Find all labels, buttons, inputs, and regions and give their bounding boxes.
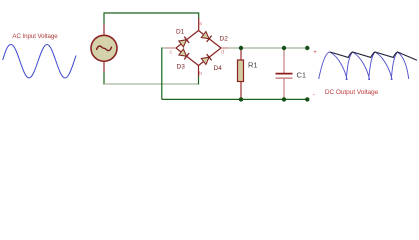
junction dot C1 bottom (282, 97, 286, 101)
svg-text:R1: R1 (248, 61, 258, 70)
svg-text:a: a (199, 21, 203, 27)
svg-text:d: d (221, 50, 224, 56)
bridge edge b-d (199, 48, 222, 66)
AC input sine wave graphic (3, 45, 76, 79)
svg-text:AC Input Voltage: AC Input Voltage (12, 33, 58, 40)
junction dot R1 top (239, 46, 243, 50)
wire node c to bottom rail (162, 47, 166, 49)
svg-text:+: + (313, 50, 317, 56)
diode D1 triangle (179, 40, 187, 47)
wire vertical x161.8 (161, 48, 163, 100)
wire segment y84 muted (104, 83, 199, 85)
lead node d (221, 47, 229, 49)
lead source top (103, 25, 105, 37)
lead node c (166, 47, 176, 49)
diode D2 cathode bar (207, 36, 212, 42)
diode D3 triangle (179, 49, 187, 56)
junction dot C1 top (282, 46, 286, 50)
AC source sine symbol (97, 46, 112, 51)
svg-text:DC Output Voltage: DC Output Voltage (325, 89, 379, 96)
resistor R1 body (238, 60, 244, 82)
terminal dot bottom right (305, 97, 309, 101)
svg-text:b: b (199, 71, 202, 77)
diode D2 triangle (201, 32, 209, 39)
junction dot R1 bottom (239, 97, 243, 101)
bridge edge c-a (176, 31, 199, 49)
svg-text:D3: D3 (177, 64, 186, 71)
capacitor C1 top plate (276, 73, 293, 75)
DC output waveform humps (319, 52, 409, 80)
AC source V1 circle (91, 35, 117, 61)
capacitor C1 bottom lead (283, 79, 285, 100)
wire bottom rail (162, 98, 307, 100)
svg-text:c: c (170, 50, 173, 56)
lead node b bottom (198, 66, 200, 77)
diode D4 cathode bar (207, 54, 212, 60)
svg-text:-: - (313, 93, 315, 99)
capacitor C1 top lead (283, 48, 285, 73)
terminal dot top right (305, 46, 309, 50)
wire top rail (229, 47, 308, 49)
diode D3 cathode bar (184, 53, 189, 59)
diode D1 cathode bar (184, 37, 189, 43)
svg-text:D1: D1 (176, 29, 185, 36)
resistor R1 leads (240, 48, 242, 61)
wire source bottom to node b (103, 72, 105, 85)
bridge edge c-b (176, 48, 199, 66)
lead source bottom (103, 61, 105, 72)
capacitor C1 bottom plate (276, 77, 293, 79)
wire top from source to node a (104, 13, 199, 25)
lead node a top (198, 18, 200, 31)
svg-text:D2: D2 (220, 36, 229, 43)
svg-text:C1: C1 (297, 71, 307, 80)
DC ripple line (330, 52, 417, 60)
wire vertical to node b (198, 76, 200, 85)
bridge edge a-d (199, 31, 222, 49)
svg-text:D4: D4 (214, 65, 223, 72)
diode D4 triangle (201, 57, 209, 64)
